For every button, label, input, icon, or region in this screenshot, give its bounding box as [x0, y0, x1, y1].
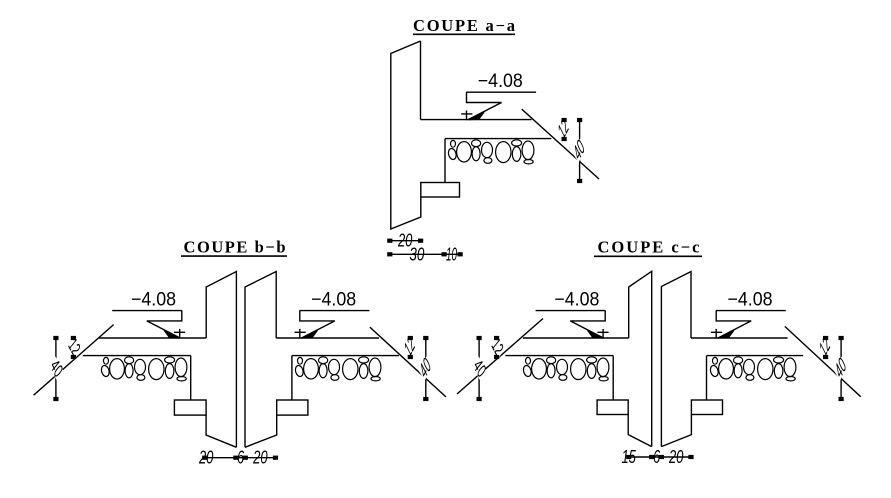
right level marker -4.08 (coupe b-b): [295, 290, 370, 339]
left gravel top line (coupe c-c): [505, 355, 613, 357]
right gravel hatch (coupe b-b): [294, 357, 381, 381]
leader diagonal (coupe a-a): [522, 109, 599, 179]
title COUPE a-a: [413, 16, 515, 35]
right side dimensions 12 and 40 (coupe c-c): [816, 331, 850, 401]
left level marker -4.08 (coupe c-c): [536, 290, 609, 339]
wall section coupe a-a (outer face, broken bottom edge, lower step): [391, 41, 421, 229]
right gravel top line (coupe b-b): [292, 355, 399, 357]
left gravel top line (coupe b-b): [83, 355, 191, 357]
right gravel hatch (coupe c-c): [709, 357, 796, 381]
footing step (coupe a-a): [421, 183, 460, 198]
svg-text:20: 20: [252, 448, 267, 468]
svg-text:20: 20: [668, 447, 683, 467]
right wall section (coupe c-c): [661, 272, 722, 447]
svg-text:COUPE c−c: COUPE c−c: [598, 238, 700, 257]
right slab top line (coupe b-b): [276, 337, 379, 339]
right slab top line (coupe c-c): [691, 337, 788, 339]
left leader diagonal (coupe b-b): [34, 325, 114, 396]
right wall section (coupe b-b): [245, 272, 308, 448]
left gravel hatch (coupe b-b): [100, 357, 187, 381]
left level marker -4.08 (coupe b-b): [112, 290, 185, 339]
right leader diagonal (coupe c-c): [785, 326, 861, 396]
svg-text:COUPE a−a: COUPE a−a: [413, 16, 515, 35]
title COUPE b-b: [181, 238, 287, 257]
left wall section (coupe b-b): [174, 272, 236, 448]
title COUPE c-c: [594, 238, 702, 257]
left gravel hatch (coupe c-c): [522, 357, 609, 381]
bottom dimensions 20 6 20 (coupe b-b): [198, 448, 278, 468]
wall inner face above slab (coupe a-a): [420, 41, 422, 120]
dimension 20 (coupe a-a): [387, 231, 423, 251]
left leader diagonal (coupe c-c): [457, 319, 543, 395]
dimension 30 and 10 (coupe a-a): [387, 244, 463, 264]
right leader diagonal (coupe b-b): [370, 327, 446, 397]
wall inner face below slab (coupe a-a): [444, 139, 446, 183]
slab top line (coupe a-a): [421, 119, 532, 121]
left slab top line (coupe b-b): [99, 337, 206, 339]
side dimensions 12 and 40 (coupe a-a): [554, 113, 588, 183]
right level marker -4.08 (coupe c-c): [711, 290, 786, 339]
svg-text:30: 30: [409, 244, 424, 264]
left wall section (coupe c-c): [597, 271, 652, 446]
level marker -4.08 (coupe a-a): [461, 71, 536, 120]
svg-text:COUPE b−b: COUPE b−b: [184, 238, 286, 257]
left side dimensions 12 and 40 (coupe b-b): [47, 331, 83, 401]
bottom dimensions 15 6 20 (coupe c-c): [621, 447, 693, 467]
right side dimensions 12 and 40 (coupe b-b): [400, 331, 434, 401]
left slab top line (coupe c-c): [523, 337, 629, 339]
right gravel top line (coupe c-c): [707, 355, 804, 357]
svg-text:10: 10: [446, 244, 457, 264]
gravel hatch (coupe a-a): [447, 140, 534, 164]
left side dimensions 12 and 40 (coupe c-c): [471, 331, 507, 401]
gravel top line (coupe a-a): [445, 138, 551, 140]
